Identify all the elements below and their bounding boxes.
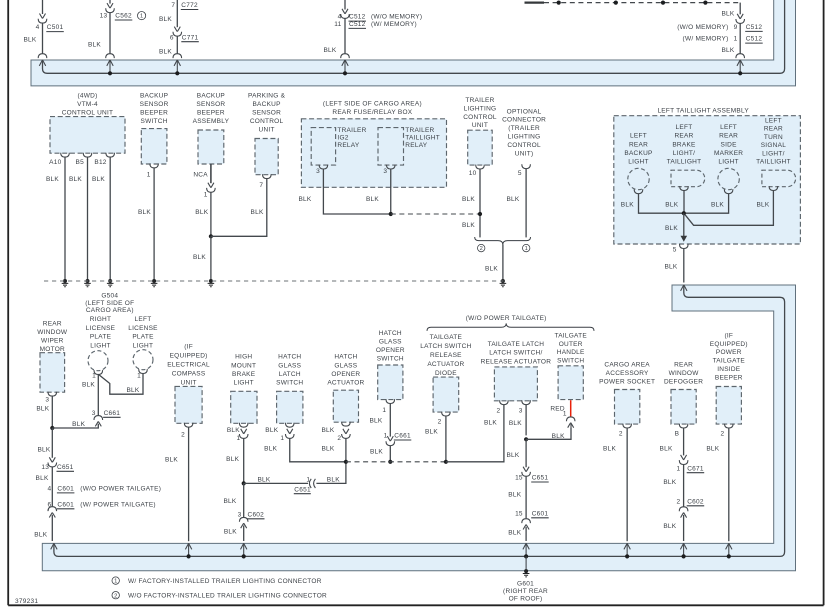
svg-text:2: 2: [438, 418, 442, 425]
svg-text:EQUIPPED): EQUIPPED): [170, 353, 208, 360]
svg-text:SWITCH: SWITCH: [557, 358, 584, 365]
svg-text:BACKUP: BACKUP: [624, 150, 652, 157]
wire BLK C661 to hatch bus: [389, 446, 391, 462]
wire BLK optional connector down: [525, 169, 527, 238]
svg-text:A10: A10: [49, 159, 61, 166]
svg-text:LIGHT/: LIGHT/: [673, 150, 695, 157]
svg-text:LEFT: LEFT: [630, 133, 647, 140]
wire BLK junction to G504: [210, 236, 212, 281]
connector at top band entry (C501 wire): [38, 54, 47, 58]
junction on top dashed wire 3: [661, 1, 665, 5]
svg-text:BACKUP: BACKUP: [140, 93, 168, 100]
svg-text:(W/O MEMORY): (W/O MEMORY): [371, 14, 422, 21]
inline connector C602 pin 2 (defogger): [679, 507, 688, 518]
junction on top dashed wire 1: [557, 1, 561, 5]
svg-text:1: 1: [147, 171, 151, 178]
svg-text:1: 1: [384, 433, 388, 440]
inline connector C671 pin 1: [679, 455, 688, 465]
svg-text:C512: C512: [349, 14, 366, 21]
svg-text:GLASS: GLASS: [334, 362, 357, 369]
svg-text:2: 2: [480, 246, 483, 252]
svg-text:SENSOR: SENSOR: [140, 101, 169, 108]
svg-text:OUTER: OUTER: [559, 341, 583, 348]
svg-text:BLK: BLK: [509, 420, 522, 427]
connector at top band entry (C562 wire): [106, 54, 115, 58]
trailer IG2 relay: [311, 128, 335, 166]
label tailgate outer handle switch: [554, 332, 587, 364]
svg-text:SWITCH: SWITCH: [141, 118, 168, 125]
svg-text:BEEPER: BEEPER: [140, 110, 168, 117]
wire BLK B12 to G504: [109, 157, 111, 281]
junction on top dashed wire 4: [703, 1, 707, 5]
wire BLK latch switch down: [290, 438, 346, 462]
label hatch glass latch switch: [276, 354, 303, 387]
wire BLK B5 to G504: [87, 157, 89, 281]
svg-text:SENSOR: SENSOR: [196, 101, 225, 108]
wire BLK power socket to ground bus: [626, 428, 628, 541]
svg-text:3: 3: [45, 397, 49, 404]
wire BLK to C562: [109, 0, 111, 4]
wire BLK TLCU down: [479, 169, 481, 238]
wire BLK to C512 (left): [344, 0, 346, 10]
junction compass riser with bus wire: [187, 554, 191, 558]
svg-text:TAILGATE: TAILGATE: [430, 334, 463, 341]
junction high mount / hatch branch: [242, 481, 246, 485]
svg-text:TURN: TURN: [764, 134, 783, 141]
svg-text:BLK: BLK: [159, 16, 172, 23]
wire BLK defogger down: [683, 428, 685, 456]
parking and backup sensor control unit: [255, 139, 278, 175]
svg-text:BLK: BLK: [665, 201, 678, 208]
svg-text:EQUIPPED): EQUIPPED): [710, 341, 748, 348]
svg-text:HIGH: HIGH: [235, 354, 252, 361]
svg-text:C771: C771: [182, 34, 199, 41]
svg-text:REAR FUSE/RELAY BOX: REAR FUSE/RELAY BOX: [332, 109, 412, 116]
electrical compass unit: [175, 386, 202, 423]
svg-text:BEEPER: BEEPER: [197, 110, 225, 117]
riser inside band (C512 left): [344, 60, 346, 73]
svg-text:BACKUP: BACKUP: [252, 101, 280, 108]
junction wiper / license lights: [50, 426, 54, 430]
label left rear backup light: [624, 133, 652, 166]
wire BLK inside beeper to ground bus: [728, 428, 730, 541]
footnote mark 1 at C562: [138, 12, 146, 20]
svg-text:C772: C772: [181, 2, 198, 9]
svg-text:POWER SOCKET: POWER SOCKET: [599, 379, 655, 386]
arrow down at assembly box edge: [681, 236, 688, 242]
wire BLK license branch: [52, 424, 98, 428]
svg-text:TRAILER: TRAILER: [465, 97, 494, 104]
pin 2 connector (power socket): [623, 424, 632, 428]
svg-text:BLK: BLK: [264, 446, 277, 453]
svg-text:BLK: BLK: [82, 382, 95, 389]
footnote 1 mark: [112, 577, 119, 585]
svg-text:G601: G601: [517, 581, 534, 588]
ground G601: [523, 569, 530, 577]
label trailer taillight relay: [405, 127, 440, 149]
svg-text:LIGHTING: LIGHTING: [508, 134, 541, 141]
junction defogger riser with bus wire: [682, 554, 686, 558]
svg-text:C661: C661: [394, 433, 411, 440]
svg-text:BLK: BLK: [36, 475, 49, 482]
label optional connector: [502, 108, 546, 157]
junction of C771 riser with bus wire: [175, 71, 179, 75]
inline connector pin 1 (high mount): [239, 429, 248, 439]
wire BLK to C501: [42, 0, 44, 14]
brace under trailer lighting wires: [475, 237, 531, 245]
svg-text:MARKER: MARKER: [714, 150, 743, 157]
pin B5 connector: [83, 153, 92, 157]
pin 2 connector (compass unit): [184, 423, 193, 427]
svg-text:C601: C601: [532, 510, 549, 517]
svg-text:3: 3: [519, 407, 523, 414]
wire BLK beeper switch to G504: [153, 168, 155, 281]
label cargo area accessory power socket: [599, 362, 655, 386]
svg-text:B5: B5: [76, 159, 85, 166]
svg-text:C602: C602: [687, 498, 704, 505]
svg-text:BLK: BLK: [224, 528, 237, 535]
svg-text:TAILGATE LATCH: TAILGATE LATCH: [488, 341, 545, 348]
pin 3 connector (taillight relay): [386, 165, 395, 169]
svg-text:SENSOR: SENSOR: [252, 110, 281, 117]
svg-text:REAR: REAR: [719, 133, 738, 140]
brace over tailgate components: [427, 323, 594, 331]
wire BLK parking unit to junction: [211, 179, 267, 237]
svg-text:3: 3: [92, 410, 96, 417]
svg-text:LATCH: LATCH: [279, 371, 301, 378]
svg-text:2: 2: [337, 435, 341, 442]
arrow into top ground bus (C562 wire): [107, 60, 113, 66]
rear window wiper motor: [40, 353, 65, 393]
riser inside band (power socket wire): [626, 543, 628, 556]
svg-text:BLK: BLK: [664, 264, 677, 271]
svg-text:2: 2: [619, 431, 623, 438]
inline connector C601: [48, 507, 57, 518]
svg-text:BLK: BLK: [321, 446, 334, 453]
svg-text:C512: C512: [746, 36, 763, 43]
label 1 C512 w/ memory: [734, 36, 763, 43]
svg-text:(RIGHT REAR: (RIGHT REAR: [503, 588, 548, 595]
svg-text:RELEASE ACTUATOR: RELEASE ACTUATOR: [481, 358, 552, 365]
svg-text:ACCESSORY: ACCESSORY: [606, 370, 649, 377]
tailgate latch latch switch/release actuator: [494, 367, 537, 401]
svg-text:C601: C601: [57, 486, 74, 493]
label 15 C651: [515, 475, 549, 482]
wire BLK C512-right to ground bus: [739, 23, 741, 53]
label rear fuse/relay box: [323, 100, 422, 116]
svg-text:ELECTRICAL: ELECTRICAL: [167, 362, 210, 369]
svg-text:1: 1: [92, 372, 96, 379]
svg-text:C602: C602: [248, 511, 265, 518]
ground G504 (B5 wire): [84, 279, 91, 287]
svg-text:REAR: REAR: [43, 321, 62, 328]
lamp left rear side marker light: [718, 168, 739, 189]
svg-text:BLK: BLK: [298, 196, 311, 203]
wire BLK C651 to C601: [51, 467, 53, 507]
wire BLK from C772: [176, 0, 178, 27]
lamp left rear backup light: [628, 168, 649, 189]
svg-text:REAR: REAR: [629, 141, 648, 148]
svg-text:BLK: BLK: [506, 452, 519, 459]
svg-text:C601: C601: [57, 501, 74, 508]
label 2 C602 (defogger): [677, 498, 705, 505]
label 3 C602: [238, 511, 265, 518]
pin 2 connector (diode): [442, 412, 451, 416]
svg-text:RELEASE: RELEASE: [430, 352, 462, 359]
svg-text:C512: C512: [349, 21, 366, 28]
svg-text:CONTROL: CONTROL: [463, 114, 497, 121]
lamp 1 terminal cup: [634, 189, 643, 193]
label 9 C512 w/o memory: [734, 24, 763, 31]
lamp left rear turn signal light/taillight: [762, 170, 796, 187]
label electrical compass unit: [167, 344, 210, 387]
svg-text:C501: C501: [47, 24, 64, 31]
arrow into ground bus (taillight wire): [681, 285, 687, 291]
label hatch glass opener actuator: [327, 354, 364, 387]
svg-text:REAR: REAR: [764, 126, 783, 133]
svg-text:BLK: BLK: [257, 477, 270, 484]
label 6 C771: [170, 34, 199, 41]
junction opener switch / hatch bus: [388, 460, 392, 464]
wire BLK taillight assembly to ground bus: [683, 248, 685, 282]
inline connector pin 1 (outer handle): [566, 417, 575, 428]
label backup sensor beeper assembly: [193, 93, 230, 125]
svg-text:BLK: BLK: [484, 419, 497, 426]
label 1 C671: [677, 465, 705, 472]
svg-text:TRAILER: TRAILER: [337, 127, 366, 134]
dashed wire along top to C512: [544, 2, 740, 4]
inline connector C651 pin 13: [48, 457, 57, 467]
svg-text:B: B: [675, 431, 680, 438]
wire BLK turn signal to junction: [684, 190, 774, 225]
pin 3 connector (latch actuator): [522, 400, 531, 404]
inline connector C562 pin 13: [106, 3, 115, 13]
svg-text:OPENER: OPENER: [331, 371, 360, 378]
svg-text:(LEFT SIDE OF CARGO AREA): (LEFT SIDE OF CARGO AREA): [323, 100, 422, 107]
footnote 2 mark: [112, 592, 119, 600]
label ground G601: [503, 581, 548, 603]
svg-text:BLK: BLK: [660, 446, 673, 453]
svg-text:1: 1: [563, 411, 567, 418]
svg-text:ASSEMBLY: ASSEMBLY: [193, 118, 230, 125]
svg-text:HATCH: HATCH: [334, 354, 357, 361]
inline connector C512 (right): [736, 14, 745, 24]
svg-text:10: 10: [469, 170, 477, 177]
label right license plate light: [86, 316, 116, 349]
bus wire inside top band: [43, 0, 785, 73]
label left rear side marker light: [714, 124, 743, 166]
high mount brake light: [231, 391, 257, 423]
arrow into top ground bus (C771 wire): [174, 60, 180, 66]
svg-text:LIGHT: LIGHT: [233, 380, 253, 387]
svg-text:LEFT: LEFT: [676, 124, 693, 131]
label 13 C562: [100, 13, 133, 20]
svg-text:(W/O POWER TAILGATE): (W/O POWER TAILGATE): [80, 486, 161, 493]
wire BLK C771 to ground bus: [176, 36, 178, 54]
svg-text:TAILLIGHT: TAILLIGHT: [756, 159, 791, 166]
svg-text:HATCH: HATCH: [379, 330, 402, 337]
arrow into bottom ground bus (wiper wire): [51, 543, 57, 549]
lamp right license plate light: [88, 351, 108, 371]
right license light terminal: [94, 370, 103, 374]
wire bus to ground G601: [525, 556, 527, 570]
svg-text:BLK: BLK: [227, 427, 240, 434]
pin 3 connector (IG2 relay): [319, 165, 328, 169]
svg-text:PLATE: PLATE: [132, 334, 154, 341]
svg-text:TAILLIGHT: TAILLIGHT: [667, 159, 702, 166]
wire BLK branch to C651: [244, 482, 308, 484]
svg-text:(W/ MEMORY): (W/ MEMORY): [683, 36, 729, 43]
hatch glass latch switch terminal: [285, 423, 294, 427]
wire BLK compass unit to ground bus: [188, 427, 190, 541]
wire BLK side marker to junction: [684, 194, 729, 214]
svg-text:OPTIONAL: OPTIONAL: [507, 108, 542, 115]
svg-text:W/ FACTORY-INSTALLED TRAILER L: W/ FACTORY-INSTALLED TRAILER LIGHTING CO…: [128, 578, 322, 585]
svg-text:BLK: BLK: [251, 209, 264, 216]
svg-text:BLK: BLK: [223, 498, 236, 505]
svg-text:1: 1: [280, 435, 284, 442]
svg-text:7: 7: [171, 2, 175, 9]
svg-text:BLK: BLK: [506, 196, 519, 203]
VTM-4 control unit: [50, 117, 125, 154]
pin 1 connector (beeper switch): [150, 164, 159, 168]
junction of C512-left riser with bus wire: [343, 71, 347, 75]
svg-text:BLK: BLK: [603, 446, 616, 453]
label ground G504: [85, 293, 134, 315]
arrow into bottom ground bus (power socket wire): [624, 543, 630, 549]
svg-text:1: 1: [734, 36, 738, 43]
inline connector C512 (left): [341, 9, 350, 19]
label 13 C651: [41, 464, 74, 471]
riser inside band (taillight wire): [683, 285, 685, 288]
label trailer IG2 relay: [337, 127, 366, 149]
wire RED outer handle switch: [570, 400, 572, 417]
svg-text:UNIT: UNIT: [181, 380, 197, 387]
label 6 C601 w/ power tailgate: [48, 501, 75, 508]
svg-text:VTM-4: VTM-4: [77, 101, 98, 108]
bus wire inside right and bottom band: [54, 288, 785, 557]
svg-text:LIGHT: LIGHT: [90, 342, 110, 349]
svg-text:MOTOR: MOTOR: [40, 346, 65, 353]
wire BLK C601 to ground bus: [52, 515, 54, 545]
power tailgate inside beeper: [716, 387, 741, 425]
hatch glass opener actuator: [333, 390, 358, 422]
svg-text:BLK: BLK: [195, 209, 208, 216]
svg-text:6: 6: [170, 34, 174, 41]
wire BLK high mount to C602: [243, 483, 245, 517]
svg-text:BLK: BLK: [485, 265, 498, 272]
svg-text:BLK: BLK: [366, 196, 379, 203]
hatch glass opener switch: [378, 365, 403, 400]
svg-text:DEFOGGER: DEFOGGER: [664, 379, 703, 386]
label tailgate latch latch switch/release actuator: [481, 341, 552, 365]
svg-text:BLK: BLK: [706, 446, 719, 453]
svg-text:BLK: BLK: [126, 387, 139, 394]
svg-text:BLK: BLK: [138, 209, 151, 216]
svg-text:BLK: BLK: [23, 36, 36, 43]
label 11 C512 w/ memory: [334, 21, 366, 28]
label parking and backup sensor control unit: [248, 93, 286, 134]
label left rear brake light/taillight: [667, 124, 702, 166]
svg-text:15: 15: [515, 475, 523, 482]
junction of C562 riser with bus wire: [108, 71, 112, 75]
svg-text:TAILGATE: TAILGATE: [713, 358, 746, 365]
wire BLK C512-left to ground bus: [344, 18, 346, 53]
svg-text:5: 5: [673, 247, 677, 254]
svg-text:PLATE: PLATE: [90, 334, 112, 341]
riser inside band (C562 wire): [109, 60, 111, 73]
svg-text:BLK: BLK: [711, 201, 724, 208]
svg-text:BLK: BLK: [327, 477, 340, 484]
svg-text:LATCH SWITCH/: LATCH SWITCH/: [489, 350, 542, 357]
junction tailgate riser with bus wire: [524, 554, 528, 558]
svg-text:BLK: BLK: [621, 201, 634, 208]
wire BLK tailgate chain to ground bus: [525, 527, 527, 541]
svg-text:C661: C661: [104, 410, 121, 417]
pin 2 connector (inside beeper): [725, 424, 734, 428]
svg-text:7: 7: [259, 182, 263, 189]
svg-text:IG2: IG2: [337, 135, 348, 142]
wire BLK opener switch down: [389, 403, 391, 436]
inline connector C651 pin 15: [522, 467, 531, 477]
svg-text:DIODE: DIODE: [435, 370, 457, 377]
svg-text:ACTUATOR: ACTUATOR: [427, 361, 464, 368]
label rear window wiper motor: [37, 321, 68, 353]
svg-text:(W/O POWER TAILGATE): (W/O POWER TAILGATE): [466, 315, 547, 322]
svg-text:1: 1: [525, 246, 528, 252]
svg-text:RIGHT: RIGHT: [90, 316, 111, 323]
wire BLK C671 to C602: [683, 464, 685, 506]
wire BLK diode down: [445, 416, 447, 462]
svg-text:BLK: BLK: [462, 196, 475, 203]
inline connector C602 (high mount): [239, 517, 248, 528]
inline connector pin 1 (latch switch): [285, 429, 294, 439]
svg-text:BLK: BLK: [69, 176, 82, 183]
svg-text:C651: C651: [57, 464, 74, 471]
wire BLK high mount down: [243, 438, 245, 483]
svg-text:13: 13: [100, 13, 108, 20]
label rear window defogger: [664, 362, 703, 386]
svg-text:UNIT): UNIT): [515, 150, 534, 157]
svg-text:UNIT: UNIT: [259, 126, 275, 133]
label high mount brake light: [231, 354, 256, 387]
svg-text:BLK: BLK: [323, 47, 336, 54]
junction TLCU wire / relay dashed wire: [478, 212, 482, 216]
wire BLK assembly junction down: [683, 213, 685, 236]
svg-text:BLK: BLK: [663, 479, 676, 486]
svg-text:BLK: BLK: [165, 456, 178, 463]
wire BLK C562 to ground bus: [109, 13, 111, 54]
lamp 2 terminal cup: [680, 186, 689, 190]
svg-text:13: 13: [41, 464, 49, 471]
svg-text:4: 4: [338, 14, 342, 21]
svg-text:TRAILER: TRAILER: [405, 127, 434, 134]
lamp left license plate light: [133, 350, 153, 370]
ground bus band right/bottom (to G601): [42, 285, 795, 571]
wire BLK from top dashed bus: [739, 3, 741, 15]
svg-text:WINDOW: WINDOW: [669, 370, 700, 377]
wire BLK C501 to ground bus: [42, 23, 44, 54]
svg-text:LICENSE: LICENSE: [86, 325, 116, 332]
wire license lights to C661: [97, 374, 99, 415]
svg-text:(W/O MEMORY): (W/O MEMORY): [677, 24, 728, 31]
wire BLK wiper junction down: [51, 428, 53, 458]
wire BLK outer handle down: [570, 424, 572, 427]
inline connector C661 pin 1 (opener switch): [386, 436, 395, 446]
label left rear turn signal light/taillight: [756, 117, 791, 165]
svg-text:BLK: BLK: [508, 492, 521, 499]
svg-text:1: 1: [137, 372, 141, 379]
